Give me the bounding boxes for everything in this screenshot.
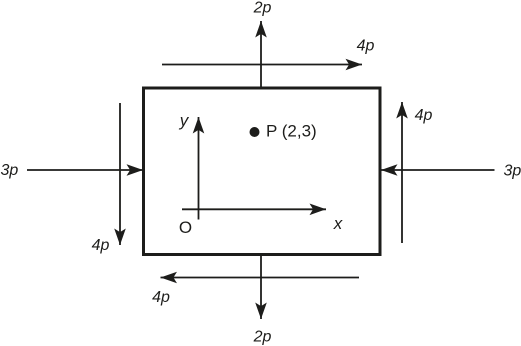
arrow 4p bottom (leftward along bottom edge) [161,277,360,279]
arrow 2p top (upward from top edge) [260,21,262,87]
arrow 3p left (rightward into left edge) [27,169,143,171]
arrow 4p top (rightward along top edge) [162,64,362,66]
svg-text:3p: 3p [1,162,19,179]
svg-text:O: O [179,218,192,237]
svg-text:x: x [333,214,343,233]
x-axis arrow [182,208,326,210]
y-axis arrow [198,117,200,220]
svg-text:4p: 4p [415,107,433,124]
point P dot [250,127,260,137]
svg-text:3p: 3p [504,163,521,180]
svg-text:4p: 4p [357,38,375,55]
arrow 4p left (downward along left edge) [119,103,121,245]
arrow 4p right (upward along right edge) [401,102,403,243]
arrow 3p right (leftward into right edge) [381,169,495,171]
arrow 2p bottom (downward from bottom edge) [260,255,262,319]
svg-text:4p: 4p [152,289,170,306]
svg-text:y: y [179,111,190,130]
plate (rectangular element) [144,88,381,255]
svg-text:2p: 2p [253,0,272,17]
svg-text:P (2,3): P (2,3) [266,122,317,141]
svg-text:4p: 4p [92,237,110,254]
svg-text:2p: 2p [253,329,272,346]
